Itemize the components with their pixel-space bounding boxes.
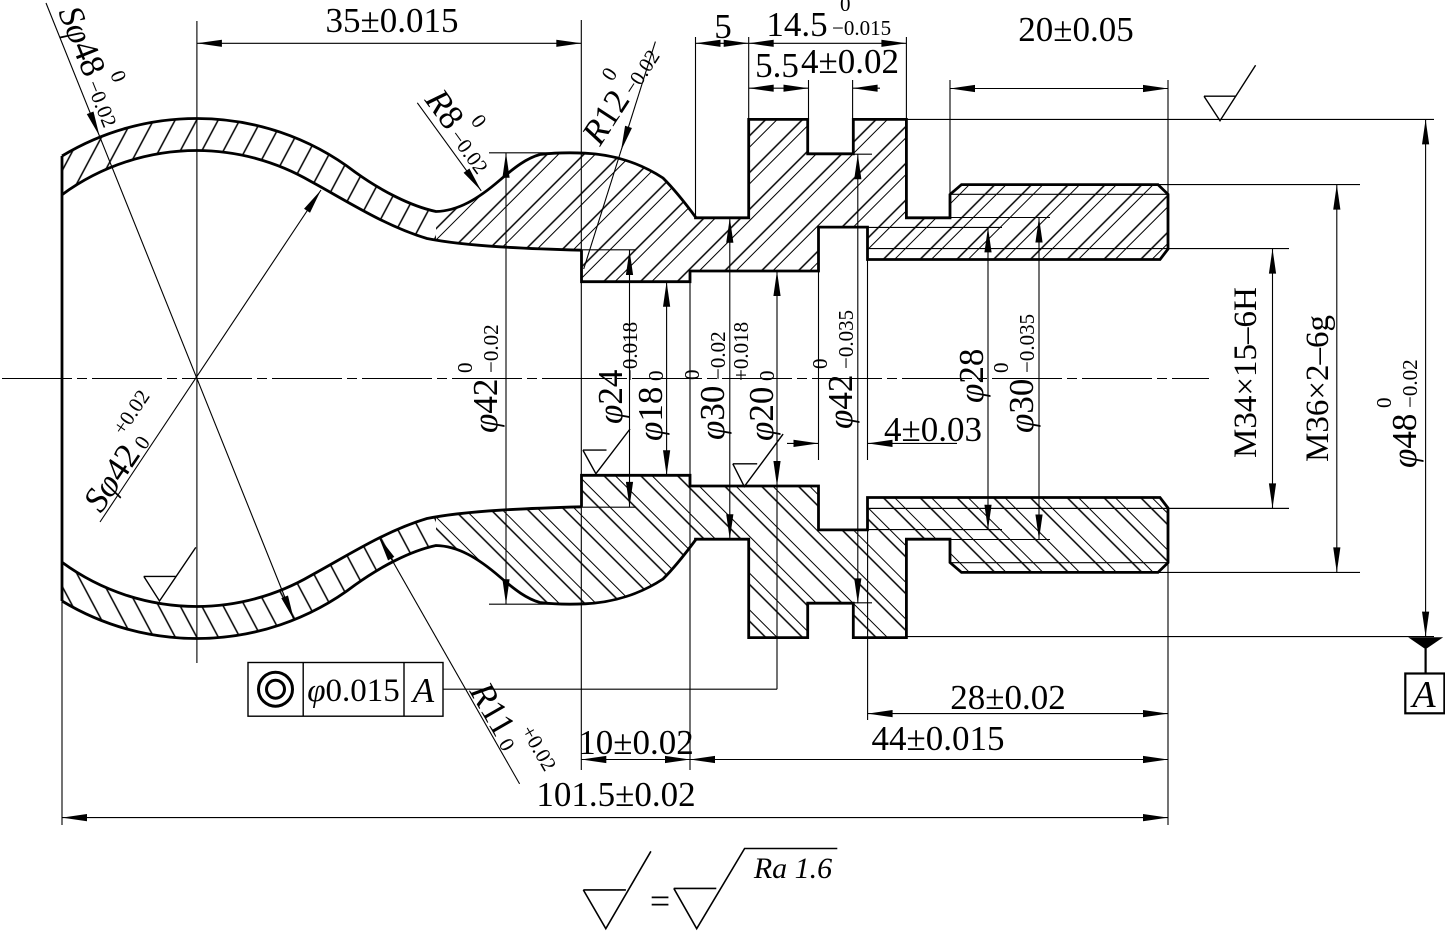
dim line phi24 [629, 250, 631, 507]
label R11 [462, 668, 562, 789]
svg-text:−0.018: −0.018 [618, 322, 642, 381]
extension line x=695.5 (5 left) [695, 37, 697, 216]
dimension 101.5+-0.02 [62, 817, 1168, 819]
dimension 5 [696, 42, 749, 44]
surface finish mark top right [1204, 65, 1256, 120]
tolerance frame leader [443, 688, 777, 690]
svg-text:0: 0 [453, 363, 477, 374]
svg-text:=: = [650, 881, 670, 921]
leader Sphi48 (through sphere center) [46, 3, 294, 620]
left flat face of sphere [61, 156, 64, 601]
label phi30 -0.035 [989, 314, 1041, 433]
dimension 4+-0.02 [853, 87, 880, 89]
extension line x=808.5 (5.5 right / 4 left) [808, 80, 810, 118]
svg-text:A: A [1409, 674, 1436, 716]
extension line x=748.7 (5 right / 14.5 left / 5.5 left) [748, 37, 750, 118]
leader Sphi42 (through sphere center) [100, 190, 321, 522]
svg-text:4±0.02: 4±0.02 [801, 42, 899, 81]
dim line phi30 -0.035 [1038, 218, 1040, 540]
dim line phi30 -0.02 [729, 218, 731, 539]
horizontal centerline [2, 378, 1209, 380]
phi28 bore reference line (thin) [868, 226, 1003, 228]
dim line phi18 [666, 282, 668, 476]
svg-text:35±0.015: 35±0.015 [326, 1, 459, 40]
svg-text:A: A [411, 671, 435, 710]
svg-text:0: 0 [644, 371, 668, 382]
surface finish mark on phi18 bore [583, 429, 630, 474]
svg-text:44±0.015: 44±0.015 [872, 719, 1005, 758]
label Sphi42 [65, 385, 178, 518]
label phi30 -0.02 [680, 331, 732, 440]
dimension 10+-0.02 and 44+-0.015 [581, 759, 1168, 761]
M34 bottom extension [868, 507, 1290, 509]
vertical centerline of sphere [196, 21, 198, 663]
label phi20 +0.018 [729, 322, 781, 441]
extension lines 4+-0.03 (internal groove) [818, 272, 820, 460]
dim line phi28 [987, 227, 989, 529]
dim line phi42 -0.02 [505, 153, 507, 605]
svg-text:φ18: φ18 [631, 387, 670, 441]
legend: basic symbol = Ra 1.6 symbol [583, 851, 651, 928]
svg-text:−0.02: −0.02 [706, 331, 730, 380]
svg-text:M34×15–6H: M34×15–6H [1228, 287, 1264, 458]
svg-text:−0.02: −0.02 [479, 324, 503, 373]
label Sphi48 [51, 0, 146, 131]
svg-text:Sφ48: Sφ48 [51, 0, 114, 81]
phi24 bore reference line (thin) [582, 249, 637, 251]
outer profile outline (top) [62, 118, 1168, 281]
extension line x=852.6 (4 right) [852, 80, 854, 118]
extension line phi48 top/bottom [906, 118, 1434, 120]
svg-text:φ30: φ30 [1002, 379, 1041, 433]
svg-text:5: 5 [714, 7, 732, 46]
dimension 5.5 [749, 87, 809, 89]
label phi24 [591, 370, 630, 424]
dim line phi42 -0.035 [857, 154, 859, 603]
hatched section: sphere crescent (left) [62, 118, 436, 240]
extension line x=690 (10 right / 44 left) [689, 282, 691, 770]
svg-text:14.5: 14.5 [766, 5, 827, 44]
dim line phi20 (continues to tolerance frame leader) [776, 271, 778, 689]
svg-text:−0.035: −0.035 [1015, 314, 1039, 373]
label phi42 -0.02 [453, 324, 505, 433]
dimension 4+-0.03 [787, 442, 819, 444]
label phi18 [618, 322, 670, 441]
extension line x=1168 (20 right / 101.5 right) [1167, 80, 1169, 193]
leader R11 [379, 537, 520, 784]
svg-text:28±0.02: 28±0.02 [950, 678, 1065, 717]
svg-text:M36×2–6g: M36×2–6g [1300, 315, 1336, 462]
svg-text:R11: R11 [462, 675, 524, 743]
leader R12 [584, 42, 656, 269]
slot bottom reference line (thin) [853, 153, 872, 155]
svg-text:10±0.02: 10±0.02 [578, 723, 693, 762]
svg-text:0: 0 [989, 363, 1013, 374]
extension line x=950 (20 left) [949, 80, 951, 216]
svg-text:0: 0 [840, 0, 851, 16]
extension line x=867.6 (28 left) [867, 530, 869, 720]
svg-text:φ30: φ30 [693, 386, 732, 440]
svg-text:φ48: φ48 [1385, 414, 1424, 468]
surface finish mark on phi20 bore [733, 434, 783, 487]
dimension 14.5 [749, 42, 907, 44]
svg-text:5.5: 5.5 [755, 46, 799, 85]
svg-text:φ0.015: φ0.015 [307, 673, 400, 709]
label phi48 -0.02 [1372, 359, 1424, 468]
svg-text:0: 0 [755, 371, 779, 382]
svg-text:−0.035: −0.035 [834, 310, 858, 369]
svg-text:20±0.05: 20±0.05 [1018, 10, 1133, 49]
phi30 bore reference line (thin) [950, 217, 1050, 219]
label phi28 [952, 349, 991, 403]
svg-text:0: 0 [1372, 398, 1396, 409]
svg-text:φ42: φ42 [466, 379, 505, 433]
inner bore profile from neck to sphere cavity (top) [62, 151, 582, 251]
extension line x=62 (101.5 left) [61, 601, 63, 825]
extension line x=581.3 (35 right / 10 left) [580, 20, 582, 770]
svg-text:−0.02: −0.02 [81, 77, 121, 131]
svg-text:Sφ42: Sφ42 [75, 437, 148, 518]
extension lines M36 [1158, 184, 1360, 186]
label R12 [563, 31, 667, 152]
surface finish mark on sphere inner surface [144, 547, 196, 601]
svg-text:101.5±0.02: 101.5±0.02 [536, 775, 695, 814]
svg-text:0: 0 [808, 359, 832, 370]
svg-text:0: 0 [105, 67, 131, 86]
label M36x2-6g [1300, 315, 1336, 462]
hatched section: neck / body / collar / threaded end (top) [427, 119, 1168, 281]
dimension 35+-0.015 [197, 42, 581, 44]
svg-text:+0.018: +0.018 [729, 322, 753, 381]
dim line M36x2-6g [1336, 185, 1338, 573]
svg-text:φ20: φ20 [742, 387, 781, 441]
label M34x15-6H [1228, 287, 1264, 458]
M34 internal thread major line (thin, extends right for dim) [868, 248, 1290, 250]
dimension 20+-0.05 [950, 88, 1168, 90]
M36 external thread root line (thin) [951, 193, 1168, 195]
svg-text:0: 0 [680, 370, 704, 381]
svg-text:+0.02: +0.02 [516, 721, 561, 775]
svg-text:4±0.03: 4±0.03 [884, 410, 982, 449]
svg-text:φ28: φ28 [952, 349, 991, 403]
leader R8 [417, 103, 481, 191]
mirror of the half [62, 475, 1289, 638]
svg-text:−0.015: −0.015 [832, 16, 891, 40]
extension line x=906.4 (14.5 right) [905, 37, 907, 118]
phi42 crest reference line (thin) [489, 152, 585, 154]
label R8 [417, 73, 514, 179]
tolerance frame box [248, 663, 443, 717]
dim line M34x15-6H [1272, 249, 1274, 509]
svg-text:0: 0 [596, 63, 622, 85]
datum A symbol [1410, 638, 1442, 649]
svg-text:−0.02: −0.02 [1398, 359, 1422, 408]
svg-text:φ42: φ42 [821, 375, 860, 429]
svg-text:−0.02: −0.02 [618, 45, 665, 99]
svg-text:Ra 1.6: Ra 1.6 [753, 852, 832, 885]
dim line phi48 -0.02 [1425, 119, 1427, 636]
dimension 28+-0.02 [868, 713, 1168, 715]
label phi42 -0.035 [808, 310, 860, 429]
svg-text:+0.02: +0.02 [108, 385, 155, 439]
